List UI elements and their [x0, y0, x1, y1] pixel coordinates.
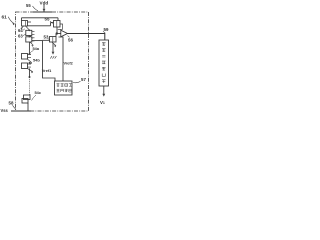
reference voltage circuit box 57 — [55, 81, 73, 95]
transistor 63a chain top — [26, 30, 35, 38]
junction — [29, 76, 31, 78]
svg-text:55: 55 — [26, 3, 31, 8]
svg-text:58: 58 — [9, 101, 14, 106]
svg-text:Vref2: Vref2 — [64, 61, 73, 65]
box 57 text glyphs row2 — [57, 89, 72, 92]
transistor 53 — [43, 34, 57, 48]
svg-text:56: 56 — [68, 37, 73, 42]
transistor 64 (left mirror PMOS) — [21, 21, 31, 30]
label 61 — [8, 17, 15, 25]
Vdd rail — [33, 11, 52, 13]
wire buffer input — [57, 33, 61, 35]
chip boundary dashed box 61 — [16, 12, 89, 111]
booster vertical text glyphs — [102, 43, 106, 84]
box 57 text glyphs row1 — [57, 84, 72, 87]
transistor 54a — [22, 54, 33, 65]
tap wire to 53 gate / Vref1 — [32, 40, 43, 42]
transistor chain 2 — [26, 37, 35, 47]
output arrow V1 — [102, 86, 105, 97]
Vdd supply arrow — [43, 5, 46, 12]
current sink arrow with ground hatch — [50, 43, 56, 59]
Vss rail — [11, 110, 31, 112]
svg-text:63: 63 — [18, 33, 23, 38]
transistor 54c — [22, 94, 30, 104]
svg-text:Vref1: Vref1 — [42, 68, 52, 73]
booster block box — [99, 40, 109, 86]
node junction — [56, 32, 58, 34]
svg-text:V1: V1 — [100, 100, 105, 105]
svg-text:54c: 54c — [35, 90, 42, 95]
Vref2 wire — [59, 37, 64, 81]
inner rail — [22, 17, 59, 19]
mirror gate wire — [31, 23, 51, 26]
svg-text:59: 59 — [104, 27, 109, 32]
wire — [28, 42, 30, 54]
wire to Vss rail — [27, 104, 29, 112]
svg-text:61: 61 — [2, 15, 8, 21]
svg-text:Vss: Vss — [1, 108, 9, 113]
svg-text:55: 55 — [45, 16, 50, 21]
svg-text:54a: 54a — [33, 46, 40, 51]
transistor 55 (right mirror PMOS) — [51, 21, 63, 34]
svg-text:54b: 54b — [33, 58, 40, 63]
wire dotted segment — [29, 69, 31, 78]
wire — [21, 18, 23, 21]
wire — [57, 18, 59, 21]
output wire to booster — [68, 34, 105, 41]
Vref1 wire — [43, 41, 56, 81]
transistor 54b — [22, 63, 34, 73]
buffer amp 56 — [61, 30, 68, 37]
svg-text:57: 57 — [81, 77, 86, 82]
